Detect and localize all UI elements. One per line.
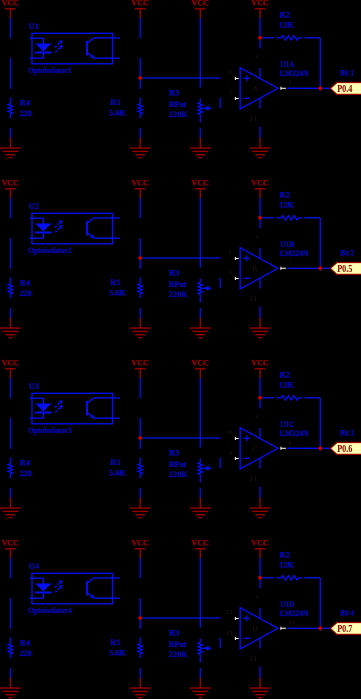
svg-text:Bit 2: Bit 2 [340,248,354,258]
svg-text:LM324N: LM324N [280,428,310,438]
svg-text:D: D [252,625,258,634]
svg-text:LM324N: LM324N [280,248,310,258]
svg-text:U2: U2 [29,201,39,211]
svg-text:Bit 3: Bit 3 [340,428,354,438]
svg-text:Optoisolator4: Optoisolator4 [28,605,72,615]
svg-text:U4: U4 [29,561,40,571]
svg-text:Optoisolator3: Optoisolator3 [28,425,71,435]
svg-text:LM324N: LM324N [280,68,310,78]
svg-text:U3: U3 [29,381,39,391]
svg-text:Bit 4: Bit 4 [340,608,354,618]
svg-text:13: 13 [226,630,233,637]
svg-text:Optoisolator1: Optoisolator1 [28,65,71,75]
svg-text:B: B [252,265,258,274]
svg-text:2: 2 [229,90,232,97]
svg-text:10: 10 [226,429,233,436]
svg-text:P0.6: P0.6 [337,444,352,455]
svg-text:12: 12 [226,609,233,616]
svg-text:A: A [252,85,258,94]
svg-text:P0.4: P0.4 [337,84,352,95]
svg-text:1: 1 [288,79,291,86]
svg-text:Optoisolator2: Optoisolator2 [28,245,71,255]
svg-text:U1: U1 [29,21,39,31]
svg-text:P0.5: P0.5 [337,264,352,275]
svg-text:C: C [252,445,258,454]
svg-text:14: 14 [288,619,295,626]
svg-text:LM324N: LM324N [280,608,310,618]
svg-text:P0.7: P0.7 [337,624,352,635]
svg-text:Bit 1: Bit 1 [340,68,354,78]
